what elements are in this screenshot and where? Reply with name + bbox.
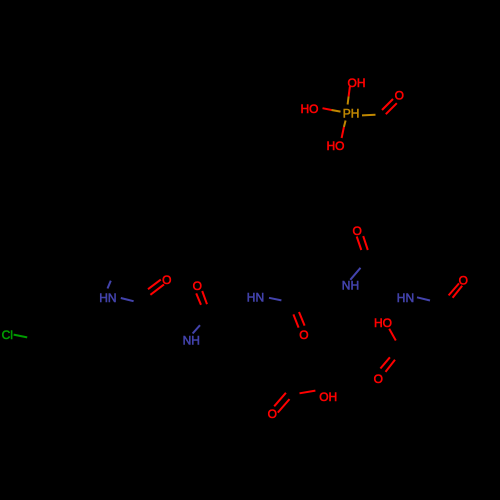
svg-text:OH: OH — [319, 390, 337, 404]
svg-text:HN: HN — [397, 291, 414, 305]
svg-text:HO: HO — [374, 316, 392, 330]
svg-text:HO: HO — [301, 102, 319, 116]
svg-text:O: O — [299, 328, 308, 342]
svg-text:Cl: Cl — [2, 328, 13, 342]
svg-text:HN: HN — [247, 291, 264, 305]
svg-text:O: O — [459, 273, 468, 287]
svg-text:O: O — [374, 372, 383, 386]
svg-text:O: O — [353, 224, 362, 238]
svg-text:O: O — [395, 89, 404, 103]
svg-text:HN: HN — [99, 291, 116, 305]
svg-text:OH: OH — [348, 76, 366, 90]
svg-text:O: O — [268, 407, 277, 421]
svg-text:NH: NH — [342, 279, 359, 293]
svg-text:NH: NH — [183, 334, 200, 348]
svg-text:O: O — [162, 273, 171, 287]
svg-text:HO: HO — [327, 139, 345, 153]
svg-text:PH: PH — [343, 107, 360, 121]
svg-text:O: O — [193, 279, 202, 293]
